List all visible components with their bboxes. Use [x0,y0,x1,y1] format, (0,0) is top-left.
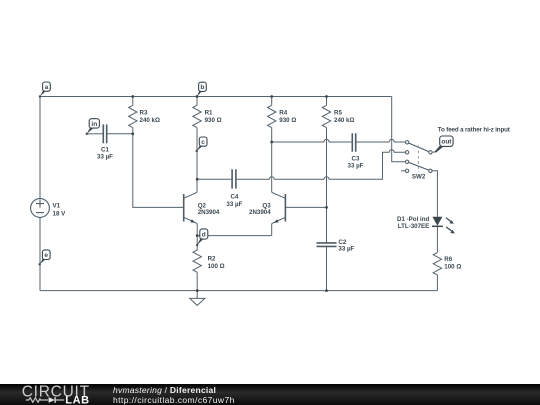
wire switch common 1 to out [432,151,435,153]
switch SW2 blades [409,143,429,170]
wire bottom rail [40,290,437,292]
svg-text:240 kΩ: 240 kΩ [140,117,160,124]
junction R4 top rail [270,95,273,98]
node b flag [196,82,207,98]
wire emitter tie d node [197,235,272,237]
svg-text:c: c [201,139,205,146]
svg-text:R3: R3 [140,109,148,116]
svg-text:C3: C3 [352,155,360,162]
node a flag [39,82,51,98]
ground symbol [190,298,205,305]
resistor R5 body [322,105,330,127]
footer credit line [113,385,216,395]
voltage source V1 [31,199,50,218]
svg-text:a: a [45,84,49,91]
switch SW2 pole contact 2 [429,169,432,172]
svg-text:e: e [44,252,48,259]
switch SW2 throw contact 1 [405,141,408,144]
wire Q3 emitter vertical [271,224,273,236]
wire R5 bottom through to C2 top [326,128,328,243]
wire Q2 emitter vertical [196,224,198,236]
wire C1 right plate to junction [108,133,133,135]
svg-text:100 Ω: 100 Ω [444,264,461,271]
wire C1 junction down and to Q2 base [133,134,184,208]
node c flag [196,137,208,152]
switch SW2 pole contact 1 [429,151,432,154]
node in flag [86,119,100,135]
footer bar [0,384,540,405]
wire collector tap to C3 with hop over R5 column [272,139,352,142]
wire top rail a-b-R4-R5 [40,96,392,98]
wire in to C1 left plate [87,133,103,135]
junction ground / bottom rail [196,289,199,292]
svg-text:V1: V1 [53,202,61,209]
CircuitLab logo [0,384,110,405]
svg-text:LTL-307EE: LTL-307EE [398,223,430,230]
wire R1 top lead [196,97,198,106]
wire top rail drop to switch contact 3 [392,97,406,162]
capacitor C1 plates [103,124,106,143]
svg-text:18 V: 18 V [53,210,67,217]
node out flag [435,136,454,153]
svg-text:b: b [200,84,204,91]
resistor R4 body [268,105,276,127]
svg-text:C1: C1 [101,147,109,154]
junction R4 bottom / C3 tap [270,141,273,144]
junction Q2 collector / C4 tap [196,178,199,181]
wire V1 bottom lead [39,217,41,290]
resistor R2 body [193,250,201,272]
svg-text:930 Ω: 930 Ω [205,117,222,124]
svg-text:SW2: SW2 [412,173,426,180]
svg-text:R5: R5 [334,109,342,116]
switch SW2 throw contact 4 [405,169,408,172]
svg-text:100 Ω: 100 Ω [208,263,225,270]
resistor R3 body [129,105,137,127]
svg-text:R6: R6 [444,256,452,263]
svg-text:R2: R2 [208,256,216,263]
wire C2 bottom lead [326,247,328,291]
svg-text:33 µF: 33 µF [226,201,242,208]
wire Q2 collector to C4 left [197,178,231,180]
wire R5 top lead [326,97,328,106]
resistor R1 body [193,105,201,127]
capacitor C3 plates [352,133,355,152]
footer url [113,395,235,405]
capacitor C2 plates [317,243,337,247]
svg-text:C4: C4 [230,193,238,200]
junction R3 top rail [131,95,134,98]
junction Q3 base / R5 column [325,206,328,209]
wire R4 bottom / Q3 collector vertical [271,128,273,193]
wire Q3 base to R5 column [285,206,326,208]
wire R4 top lead [271,97,273,106]
wire R2 bottom lead [196,272,198,290]
svg-text:240 kΩ: 240 kΩ [334,117,354,124]
transistor Q3 [272,192,286,223]
node d flag [196,229,208,246]
LED D1 [432,217,455,234]
svg-text:in: in [91,121,97,128]
wire R3 bottom lead to C1 junction [132,128,134,134]
svg-text:2N3904: 2N3904 [249,209,271,216]
wire switch common 2 to LED [432,171,437,217]
wire C4 right to switch contact 2 with hops [237,150,406,180]
junction C1 / R3 bottom [131,132,134,135]
svg-text:930 Ω: 930 Ω [279,117,296,124]
svg-text:R1: R1 [205,109,213,116]
capacitor C4 plates [232,169,236,188]
svg-text:LAB: LAB [65,395,89,405]
switch SW2 throw contact 3 [405,160,408,163]
wire V1 top lead [39,97,41,199]
wire R6 bottom lead [436,275,438,291]
wire ground stub [196,291,198,299]
wire LED cathode to R6 [436,226,438,252]
switch SW2 throw contact 2 [405,151,408,154]
svg-text:33 µF: 33 µF [338,245,354,252]
wire C3 to switch contact 1 with hop over rail drop [357,139,406,142]
wire R1 bottom / node c / Q2 collector vertical [196,128,198,193]
svg-text:R4: R4 [279,109,287,116]
switch SW2 gang dashed link [417,146,419,173]
svg-text:out: out [441,139,452,146]
transistor Q2 [184,192,198,223]
resistor R6 body [433,253,441,275]
junction node b / R1 top rail [196,95,199,98]
svg-text:33 µF: 33 µF [348,163,364,170]
wire R2 top lead [196,236,198,250]
wire R3 top lead [132,97,134,106]
node e flag [39,250,51,266]
svg-text:33 µF: 33 µF [97,154,113,161]
wire stub switch contact 4 [401,170,405,172]
junction R5 top rail [325,95,328,98]
junction node d emitters / R2 [196,234,199,237]
svg-text:2N3904: 2N3904 [198,209,220,216]
svg-text:d: d [202,231,206,238]
junction C2 / bottom rail [325,289,328,292]
svg-text:To feed a rather hi-z input: To feed a rather hi-z input [438,127,510,134]
